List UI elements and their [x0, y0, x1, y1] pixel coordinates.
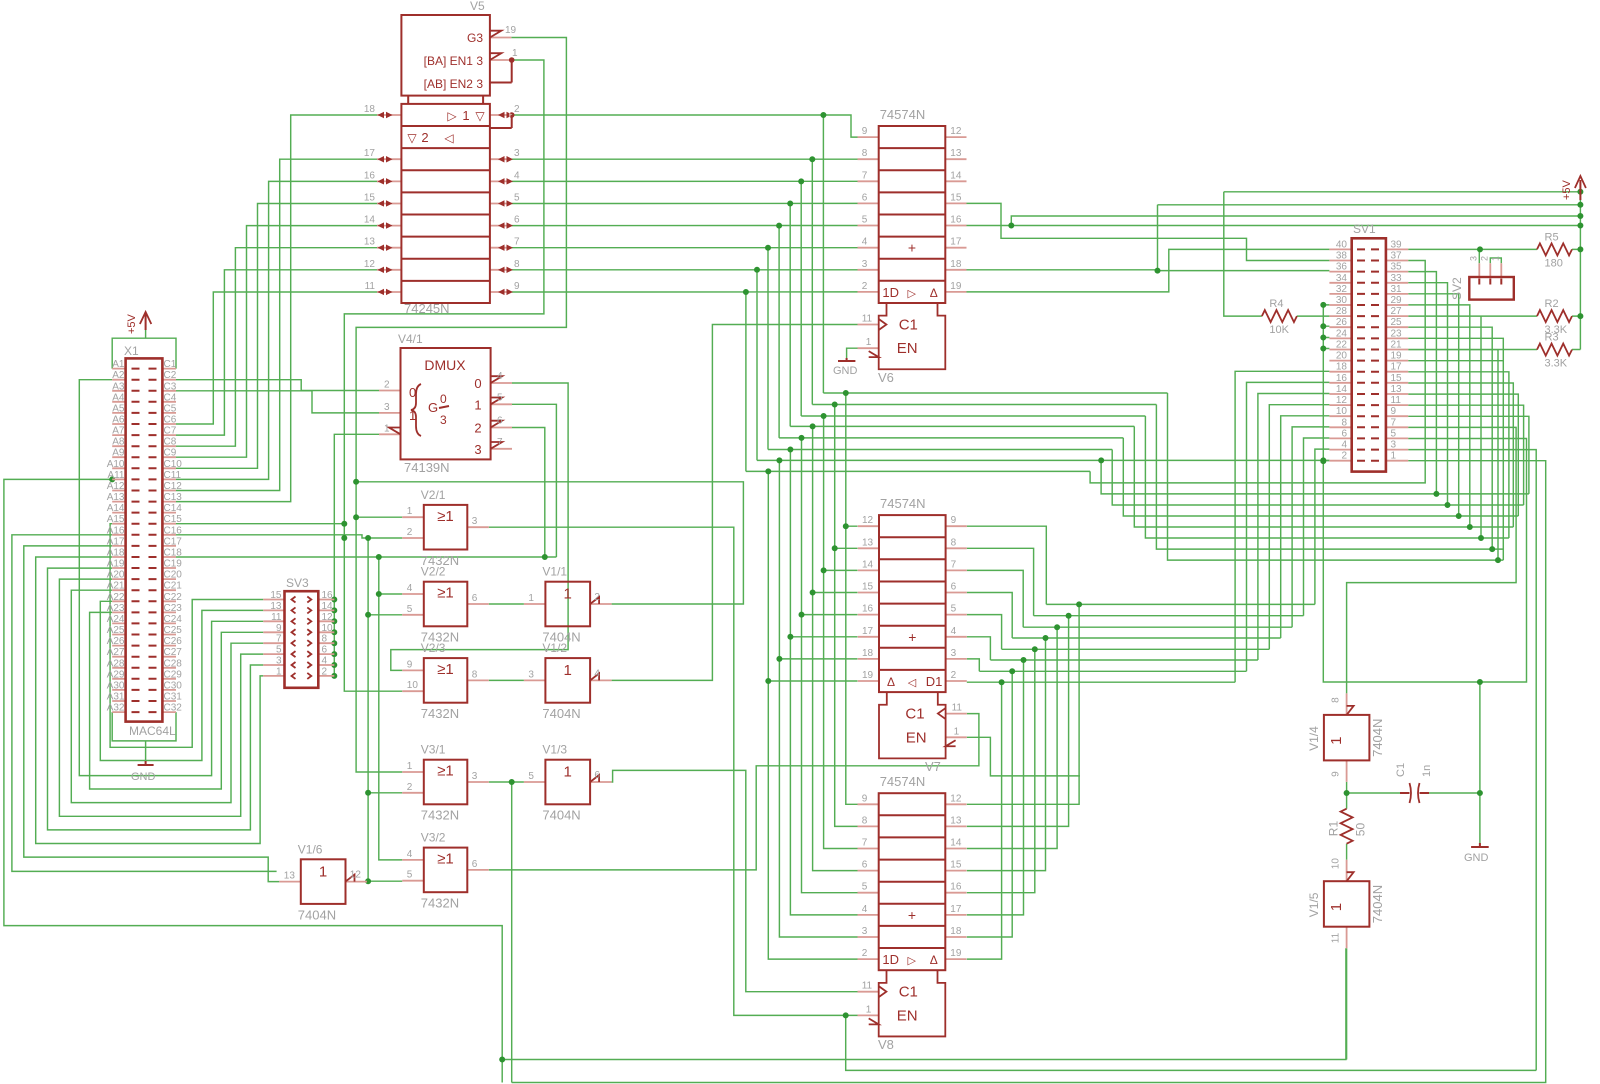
- svg-text:2: 2: [862, 281, 868, 292]
- svg-text:17: 17: [364, 148, 376, 159]
- svg-text:19: 19: [950, 281, 962, 292]
- svg-text:C16: C16: [164, 525, 183, 536]
- svg-text:≥1: ≥1: [437, 585, 454, 602]
- svg-text:20: 20: [1336, 351, 1348, 362]
- svg-text:3: 3: [440, 413, 447, 427]
- svg-text:V5: V5: [470, 0, 485, 13]
- svg-text:15: 15: [950, 860, 962, 871]
- svg-text:2: 2: [322, 666, 328, 677]
- svg-text:A14: A14: [107, 503, 125, 514]
- svg-text:9: 9: [1391, 406, 1397, 417]
- svg-text:31: 31: [1391, 284, 1403, 295]
- svg-text:V1/6: V1/6: [298, 842, 323, 856]
- svg-text:7404N: 7404N: [298, 907, 336, 922]
- svg-text:R5: R5: [1545, 231, 1559, 243]
- svg-text:7: 7: [862, 170, 868, 181]
- svg-text:6: 6: [497, 416, 503, 427]
- svg-text:3: 3: [384, 402, 390, 413]
- svg-text:3: 3: [862, 926, 868, 937]
- svg-text:SV2: SV2: [1450, 277, 1464, 300]
- svg-text:1: 1: [1391, 451, 1397, 462]
- svg-text:15: 15: [950, 192, 962, 203]
- svg-text:4: 4: [407, 583, 413, 594]
- svg-text:3: 3: [528, 669, 534, 680]
- svg-text:12: 12: [350, 870, 362, 881]
- svg-text:7: 7: [862, 838, 868, 849]
- svg-text:29: 29: [1391, 295, 1403, 306]
- svg-text:2: 2: [407, 527, 413, 538]
- svg-text:A9: A9: [112, 448, 125, 459]
- svg-text:Δ: Δ: [887, 675, 895, 689]
- svg-text:14: 14: [950, 170, 962, 181]
- svg-text:C20: C20: [164, 570, 183, 581]
- svg-text:A32: A32: [107, 703, 125, 714]
- svg-text:A26: A26: [107, 636, 125, 647]
- svg-text:24: 24: [1336, 328, 1348, 339]
- svg-text:MAC64L: MAC64L: [129, 724, 176, 738]
- svg-text:C1: C1: [1395, 763, 1407, 777]
- svg-text:1: 1: [319, 863, 327, 880]
- svg-text:9: 9: [514, 281, 520, 292]
- svg-text:7432N: 7432N: [421, 896, 459, 911]
- svg-text:C21: C21: [164, 581, 183, 592]
- svg-text:V2/1: V2/1: [421, 488, 446, 502]
- svg-text:18: 18: [364, 104, 376, 115]
- svg-text:1: 1: [462, 108, 469, 123]
- svg-text:14: 14: [950, 838, 962, 849]
- svg-text:6: 6: [514, 215, 520, 226]
- svg-text:3: 3: [472, 771, 478, 782]
- svg-text:C11: C11: [164, 470, 182, 481]
- svg-text:74574N: 74574N: [880, 107, 926, 122]
- svg-text:≥1: ≥1: [437, 763, 454, 780]
- svg-text:C15: C15: [164, 514, 183, 525]
- svg-text:+: +: [908, 240, 916, 256]
- svg-text:12: 12: [1336, 395, 1348, 406]
- svg-text:A24: A24: [107, 614, 125, 625]
- svg-text:C17: C17: [164, 536, 183, 547]
- svg-text:16: 16: [862, 604, 874, 615]
- svg-text:A11: A11: [107, 470, 124, 481]
- svg-text:6: 6: [322, 645, 328, 656]
- svg-text:R1: R1: [1327, 821, 1341, 837]
- svg-text:DMUX: DMUX: [424, 357, 466, 373]
- svg-text:13: 13: [862, 537, 874, 548]
- svg-text:A20: A20: [107, 570, 125, 581]
- svg-text:C24: C24: [164, 614, 183, 625]
- svg-text:C1: C1: [905, 706, 924, 723]
- svg-text:5: 5: [407, 604, 413, 615]
- svg-text:7: 7: [514, 237, 520, 248]
- svg-text:+5V: +5V: [126, 313, 138, 334]
- svg-text:1n: 1n: [1421, 765, 1433, 777]
- svg-text:EN: EN: [897, 340, 918, 357]
- svg-text:+5V: +5V: [1561, 179, 1573, 200]
- svg-text:8: 8: [472, 669, 478, 680]
- svg-text:8: 8: [1331, 697, 1342, 703]
- svg-text:0: 0: [440, 392, 447, 406]
- svg-text:6: 6: [594, 770, 600, 781]
- svg-text:7404N: 7404N: [1370, 885, 1385, 923]
- svg-text:V4/1: V4/1: [398, 332, 423, 346]
- svg-text:C32: C32: [164, 703, 183, 714]
- svg-text:EN: EN: [906, 729, 927, 746]
- svg-text:11: 11: [862, 314, 873, 325]
- svg-text:1: 1: [276, 666, 282, 677]
- svg-text:11: 11: [271, 612, 282, 623]
- svg-text:8: 8: [1341, 417, 1347, 428]
- svg-text:2: 2: [594, 592, 600, 603]
- svg-text:9: 9: [862, 126, 868, 137]
- svg-text:5: 5: [862, 882, 868, 893]
- svg-text:3: 3: [474, 442, 481, 457]
- svg-text:14: 14: [364, 215, 376, 226]
- svg-text:C1: C1: [899, 984, 918, 1001]
- svg-text:◁: ◁: [444, 131, 454, 145]
- svg-text:V7: V7: [925, 759, 941, 774]
- svg-text:6: 6: [472, 859, 478, 870]
- svg-text:▷: ▷: [907, 955, 916, 967]
- svg-text:4: 4: [514, 170, 520, 181]
- svg-text:1D: 1D: [882, 952, 899, 967]
- svg-text:4: 4: [322, 656, 328, 667]
- svg-text:A12: A12: [107, 481, 125, 492]
- svg-text:A10: A10: [107, 459, 125, 470]
- svg-text:SV3: SV3: [286, 576, 309, 590]
- svg-text:27: 27: [1391, 306, 1403, 317]
- svg-text:2: 2: [407, 782, 413, 793]
- svg-text:30: 30: [1336, 295, 1348, 306]
- svg-text:1: 1: [1490, 256, 1500, 261]
- svg-text:15: 15: [364, 193, 376, 204]
- svg-text:7: 7: [497, 437, 503, 448]
- svg-text:6: 6: [951, 582, 957, 593]
- svg-text:50: 50: [1354, 823, 1368, 837]
- svg-text:A15: A15: [107, 514, 125, 525]
- svg-text:8: 8: [862, 148, 868, 159]
- svg-text:13: 13: [284, 871, 296, 882]
- svg-text:C9: C9: [164, 448, 177, 459]
- svg-text:▷: ▷: [907, 288, 916, 300]
- svg-text:19: 19: [862, 670, 874, 681]
- svg-text:17: 17: [1391, 362, 1403, 373]
- svg-text:C25: C25: [164, 625, 183, 636]
- svg-text:2: 2: [514, 104, 520, 115]
- svg-text:33: 33: [1391, 273, 1403, 284]
- svg-text:V1/3: V1/3: [542, 743, 567, 757]
- svg-text:C22: C22: [164, 592, 183, 603]
- svg-text:A3: A3: [112, 381, 125, 392]
- svg-text:1: 1: [564, 662, 572, 679]
- svg-text:74574N: 74574N: [880, 774, 926, 789]
- svg-text:A2: A2: [112, 370, 125, 381]
- svg-text:8: 8: [322, 634, 328, 645]
- svg-text:5: 5: [276, 645, 282, 656]
- svg-text:2: 2: [1341, 451, 1347, 462]
- svg-text:A25: A25: [107, 625, 125, 636]
- svg-text:16: 16: [322, 590, 334, 601]
- svg-text:C27: C27: [164, 647, 183, 658]
- svg-text:2: 2: [951, 670, 957, 681]
- svg-text:SV1: SV1: [1353, 222, 1376, 236]
- svg-text:5: 5: [1391, 428, 1397, 439]
- svg-text:G: G: [428, 400, 438, 415]
- svg-text:C3: C3: [164, 381, 177, 392]
- svg-text:19: 19: [1391, 351, 1403, 362]
- svg-text:C12: C12: [164, 481, 183, 492]
- svg-text:A22: A22: [107, 592, 125, 603]
- svg-text:5: 5: [497, 392, 503, 403]
- svg-text:C19: C19: [164, 559, 183, 570]
- svg-text:7404N: 7404N: [542, 808, 580, 823]
- svg-text:4: 4: [862, 904, 868, 915]
- svg-text:A6: A6: [112, 415, 125, 426]
- svg-text:5: 5: [528, 771, 534, 782]
- svg-text:1: 1: [409, 408, 416, 423]
- svg-text:A23: A23: [107, 603, 125, 614]
- svg-text:C7: C7: [164, 426, 177, 437]
- svg-text:17: 17: [950, 237, 962, 248]
- svg-text:A1: A1: [112, 359, 125, 370]
- svg-text:4: 4: [407, 849, 413, 860]
- svg-text:5: 5: [862, 215, 868, 226]
- svg-text:X1: X1: [124, 344, 139, 358]
- svg-text:Δ: Δ: [930, 953, 938, 967]
- svg-text:A31: A31: [107, 692, 125, 703]
- svg-text:1: 1: [564, 764, 572, 781]
- svg-text:4: 4: [497, 371, 503, 382]
- svg-text:≥1: ≥1: [437, 661, 454, 678]
- svg-text:13: 13: [1391, 384, 1403, 395]
- svg-text:1: 1: [1328, 903, 1345, 911]
- svg-text:9: 9: [1331, 771, 1342, 777]
- svg-text:4: 4: [862, 237, 868, 248]
- svg-text:23: 23: [1391, 328, 1403, 339]
- svg-text:16: 16: [950, 215, 962, 226]
- svg-text:3.3K: 3.3K: [1545, 358, 1568, 370]
- svg-text:10: 10: [1331, 858, 1342, 870]
- svg-text:1: 1: [866, 337, 872, 348]
- svg-text:21: 21: [1391, 340, 1403, 351]
- svg-text:1: 1: [474, 397, 481, 412]
- svg-text:▽: ▽: [407, 131, 417, 145]
- svg-text:1: 1: [528, 593, 534, 604]
- svg-text:7: 7: [276, 634, 282, 645]
- svg-text:74245N: 74245N: [404, 301, 450, 316]
- svg-text:5: 5: [951, 604, 957, 615]
- svg-text:1: 1: [866, 1004, 872, 1015]
- svg-text:18: 18: [1336, 362, 1348, 373]
- svg-text:11: 11: [862, 981, 873, 992]
- svg-text:9: 9: [862, 793, 868, 804]
- svg-text:1: 1: [564, 586, 572, 603]
- svg-text:1D: 1D: [882, 285, 899, 300]
- svg-text:13: 13: [364, 237, 376, 248]
- svg-text:1: 1: [407, 506, 413, 517]
- svg-text:EN: EN: [897, 1007, 918, 1024]
- svg-text:14: 14: [862, 559, 874, 570]
- svg-text:14: 14: [322, 601, 334, 612]
- svg-text:C1: C1: [899, 317, 918, 334]
- svg-text:C5: C5: [164, 403, 177, 414]
- svg-text:12: 12: [364, 259, 376, 270]
- svg-text:11: 11: [952, 703, 963, 714]
- svg-text:22: 22: [1336, 340, 1348, 351]
- svg-text:13: 13: [270, 601, 282, 612]
- svg-text:A5: A5: [112, 403, 125, 414]
- svg-text:34: 34: [1336, 273, 1348, 284]
- svg-text:C30: C30: [164, 680, 183, 691]
- svg-text:15: 15: [862, 582, 874, 593]
- svg-text:◁: ◁: [908, 677, 917, 689]
- svg-text:R4: R4: [1269, 298, 1283, 310]
- svg-text:A16: A16: [107, 525, 125, 536]
- svg-text:1: 1: [407, 761, 413, 772]
- svg-text:A21: A21: [107, 581, 125, 592]
- svg-text:3: 3: [1468, 256, 1478, 261]
- svg-text:9: 9: [951, 515, 957, 526]
- svg-text:C1: C1: [164, 359, 177, 370]
- svg-text:2: 2: [384, 380, 390, 391]
- svg-text:7404N: 7404N: [542, 706, 580, 721]
- svg-text:4: 4: [951, 626, 957, 637]
- svg-text:+: +: [908, 629, 916, 645]
- svg-text:V1/1: V1/1: [542, 565, 567, 579]
- svg-text:3: 3: [472, 516, 478, 527]
- svg-text:Δ: Δ: [930, 286, 938, 300]
- svg-text:10: 10: [322, 623, 334, 634]
- svg-text:3: 3: [951, 648, 957, 659]
- svg-text:40: 40: [1336, 239, 1348, 250]
- svg-text:A27: A27: [107, 647, 125, 658]
- svg-text:V2/3: V2/3: [421, 641, 446, 655]
- svg-text:16: 16: [364, 170, 376, 181]
- svg-text:17: 17: [950, 904, 962, 915]
- svg-text:A29: A29: [107, 669, 125, 680]
- svg-text:0: 0: [474, 376, 481, 391]
- svg-text:7: 7: [951, 559, 957, 570]
- svg-text:26: 26: [1336, 317, 1348, 328]
- svg-text:C2: C2: [164, 370, 177, 381]
- svg-text:35: 35: [1391, 262, 1403, 273]
- svg-text:9: 9: [276, 623, 282, 634]
- svg-text:V3/2: V3/2: [421, 831, 446, 845]
- svg-text:74139N: 74139N: [404, 460, 450, 475]
- svg-text:11: 11: [365, 281, 376, 292]
- svg-text:A30: A30: [107, 680, 125, 691]
- svg-text:10: 10: [407, 680, 419, 691]
- svg-text:12: 12: [322, 612, 334, 623]
- svg-text:11: 11: [1331, 932, 1342, 943]
- svg-text:2: 2: [421, 130, 428, 145]
- svg-text:V6: V6: [878, 370, 894, 385]
- svg-text:9: 9: [407, 659, 413, 670]
- svg-text:1: 1: [954, 726, 960, 737]
- svg-text:A8: A8: [112, 437, 125, 448]
- svg-text:18: 18: [862, 648, 874, 659]
- svg-text:14: 14: [1336, 384, 1348, 395]
- svg-text:2: 2: [862, 948, 868, 959]
- svg-text:7432N: 7432N: [421, 706, 459, 721]
- svg-text:A4: A4: [112, 392, 125, 403]
- svg-text:0: 0: [409, 385, 416, 400]
- svg-text:32: 32: [1336, 284, 1348, 295]
- svg-text:8: 8: [514, 259, 520, 270]
- svg-text:GND: GND: [131, 771, 156, 783]
- svg-text:+: +: [908, 907, 916, 923]
- svg-text:16: 16: [950, 882, 962, 893]
- svg-text:C26: C26: [164, 636, 183, 647]
- svg-text:8: 8: [951, 537, 957, 548]
- svg-text:A17: A17: [107, 536, 125, 547]
- svg-text:74574N: 74574N: [880, 496, 926, 511]
- svg-text:18: 18: [950, 926, 962, 937]
- svg-text:3: 3: [514, 148, 520, 159]
- svg-text:V1/5: V1/5: [1307, 892, 1321, 917]
- svg-text:12: 12: [862, 515, 874, 526]
- svg-text:C8: C8: [164, 437, 177, 448]
- svg-text:38: 38: [1336, 251, 1348, 262]
- svg-text:37: 37: [1391, 251, 1403, 262]
- svg-text:15: 15: [1391, 373, 1403, 384]
- svg-text:C6: C6: [164, 415, 177, 426]
- svg-text:A13: A13: [107, 492, 125, 503]
- svg-text:A19: A19: [107, 559, 125, 570]
- svg-text:A28: A28: [107, 658, 125, 669]
- svg-text:4: 4: [1341, 440, 1347, 451]
- svg-text:[BA] EN1 3: [BA] EN1 3: [424, 54, 484, 68]
- svg-text:1: 1: [512, 48, 518, 59]
- svg-text:12: 12: [950, 126, 962, 137]
- svg-text:5: 5: [407, 870, 413, 881]
- svg-text:≥1: ≥1: [437, 508, 454, 525]
- svg-text:3: 3: [862, 259, 868, 270]
- svg-text:13: 13: [950, 815, 962, 826]
- svg-text:▽: ▽: [475, 109, 485, 123]
- svg-text:C14: C14: [164, 503, 183, 514]
- svg-text:A18: A18: [107, 548, 125, 559]
- svg-text:V8: V8: [878, 1037, 894, 1052]
- svg-text:V1/2: V1/2: [542, 641, 567, 655]
- svg-text:2: 2: [1479, 256, 1489, 261]
- svg-text:6: 6: [472, 593, 478, 604]
- svg-text:D1: D1: [926, 674, 943, 689]
- svg-text:C4: C4: [164, 392, 177, 403]
- svg-text:19: 19: [505, 25, 517, 36]
- svg-text:11: 11: [1391, 395, 1402, 406]
- svg-text:R2: R2: [1545, 298, 1559, 310]
- svg-text:6: 6: [862, 192, 868, 203]
- svg-text:25: 25: [1391, 317, 1403, 328]
- svg-text:A7: A7: [112, 426, 125, 437]
- svg-text:6: 6: [1341, 428, 1347, 439]
- svg-text:7: 7: [1391, 417, 1397, 428]
- svg-text:V1/4: V1/4: [1307, 726, 1321, 751]
- svg-text:GND: GND: [833, 365, 858, 377]
- svg-text:8: 8: [862, 815, 868, 826]
- svg-text:V3/1: V3/1: [421, 743, 446, 757]
- svg-text:C10: C10: [164, 459, 183, 470]
- svg-text:7404N: 7404N: [1370, 719, 1385, 757]
- svg-text:12: 12: [950, 793, 962, 804]
- svg-text:C23: C23: [164, 603, 183, 614]
- svg-text:R3: R3: [1545, 332, 1559, 344]
- svg-text:C28: C28: [164, 658, 183, 669]
- svg-text:28: 28: [1336, 306, 1348, 317]
- svg-text:18: 18: [950, 259, 962, 270]
- svg-text:C31: C31: [164, 692, 183, 703]
- svg-text:19: 19: [950, 948, 962, 959]
